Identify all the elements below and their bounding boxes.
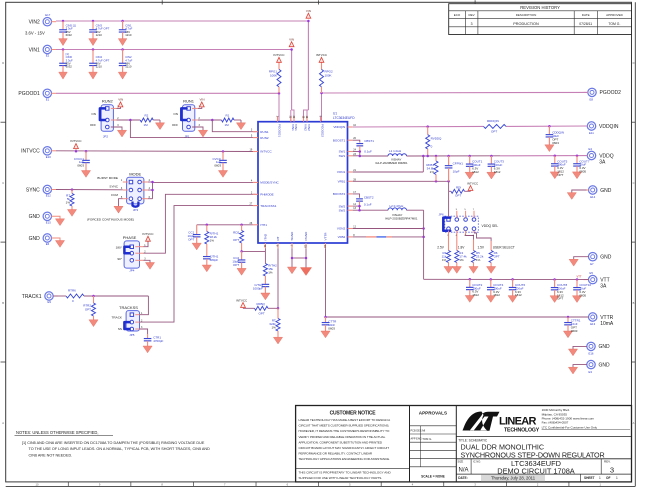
revision history table (449, 4, 632, 35)
svg-text:PGOOD1: PGOOD1 (278, 124, 282, 137)
resistor RVDDQ (426, 127, 442, 156)
svg-text:E12: E12 (46, 194, 51, 198)
capacitor CDDQIN (545, 126, 564, 151)
power arrow VIN at VIN1 rail corner (289, 37, 294, 46)
labels RUN2 ON OFF (90, 112, 96, 127)
capacitor COUT4 (486, 279, 503, 302)
svg-text:SYNCHRONOUS STEP-DOWN REGULATO: SYNCHRONOUS STEP-DOWN REGULATOR (461, 450, 605, 459)
resistor RFB1 (426, 156, 438, 181)
capacitor CIN3 (89, 21, 110, 46)
svg-text:PHMODE: PHMODE (260, 193, 273, 197)
svg-text:E2: E2 (46, 54, 50, 58)
svg-text:OF: OF (606, 476, 610, 480)
wire SYNC (56, 188, 123, 191)
svg-text:680pF: 680pF (210, 258, 219, 262)
terminal E12 SYNC (26, 185, 56, 197)
svg-text:10pF: 10pF (453, 169, 460, 173)
svg-text:MODE: MODE (129, 172, 141, 177)
svg-text:INTVCC: INTVCC (316, 53, 328, 57)
ground arrow at E6 (51, 238, 64, 247)
wire VIN1 rail (56, 50, 292, 111)
svg-text:E17: E17 (45, 13, 50, 17)
svg-text:VIN2: VIN2 (304, 124, 308, 131)
IC top pin stubs and numbers (275, 116, 324, 138)
stub pins JP6 top (456, 209, 475, 218)
svg-text:OFF: OFF (90, 123, 96, 127)
svg-text:1000pF: 1000pF (253, 287, 263, 291)
ground arrow after R1 (236, 120, 245, 130)
ground arrow after R2 (155, 120, 164, 130)
terminal E11 VDDQIN (583, 122, 619, 135)
svg-text:10mA: 10mA (600, 321, 614, 327)
resistor RFBQ (255, 302, 269, 316)
IC right pin stubs and numbers (333, 124, 357, 239)
notes text (15, 430, 211, 457)
svg-text:CIRCUIT THAT MEETS CUSTOMER-SU: CIRCUIT THAT MEETS CUSTOMER-SUPPLIED SPE… (299, 424, 390, 428)
power arrow VIN at VIN2 rail corner (306, 9, 311, 18)
svg-text:VIN2: VIN2 (29, 20, 40, 26)
svg-text:MODE/SYNC: MODE/SYNC (260, 181, 279, 185)
svg-text:OPT: OPT (491, 129, 497, 133)
svg-text:PGND: PGND (304, 231, 308, 241)
svg-text:3A: 3A (599, 160, 606, 166)
svg-text:OPT: OPT (455, 194, 461, 198)
svg-text:GND: GND (29, 214, 41, 220)
svg-text:INTVCC: INTVCC (467, 181, 479, 185)
capacitor CC1 (187, 225, 201, 250)
terminal E1 PGOOD1 (18, 89, 56, 101)
svg-text:1%: 1% (271, 326, 276, 330)
svg-text:180°: 180° (116, 245, 123, 249)
svg-text:E4: E4 (589, 147, 593, 151)
svg-text:E7: E7 (590, 262, 594, 266)
capacitor CTR1 (140, 329, 164, 353)
svg-text:SIZE: SIZE (458, 459, 464, 463)
svg-text:OPT: OPT (557, 173, 563, 177)
wire VDDQIN net (353, 125, 588, 128)
terminal E9 TRACK1 (22, 292, 58, 304)
terminal E16 GND (587, 342, 610, 355)
terminal E10 INTVCC (21, 147, 56, 159)
svg-text:1%: 1% (210, 239, 215, 243)
svg-text:SS: SS (118, 327, 122, 331)
IC bottom pin stubs and numbers (263, 231, 328, 248)
svg-text:E16: E16 (589, 352, 594, 356)
svg-text:6032: 6032 (66, 65, 73, 69)
resistor R4 (452, 251, 467, 274)
svg-text:VIN1: VIN1 (294, 124, 298, 131)
svg-text:0603: 0603 (328, 326, 335, 330)
svg-text:OPT: OPT (259, 312, 265, 316)
svg-text:E11: E11 (589, 131, 594, 135)
power arrow INTVCC above RPG1 (273, 53, 285, 62)
svg-text:REV.: REV. (604, 460, 611, 464)
svg-text:REVISION HISTORY: REVISION HISTORY (520, 5, 560, 10)
svg-text:OPT: OPT (233, 238, 239, 242)
svg-text:GND: GND (29, 236, 41, 242)
svg-text:0805: 0805 (579, 170, 586, 174)
svg-text:E5: E5 (590, 271, 594, 275)
wire VIN pin drops (291, 110, 309, 122)
jumper JP5 TRACKSS (119, 305, 143, 337)
capacitor CVCC (212, 152, 227, 178)
svg-text:A: A (633, 421, 635, 425)
svg-text:E3: E3 (589, 370, 593, 374)
svg-text:E1: E1 (46, 98, 50, 102)
svg-text:OPT: OPT (557, 297, 563, 301)
labels MODE options (87, 176, 134, 222)
ground arrow at E14 (567, 190, 588, 199)
wire VFB1 net (353, 180, 450, 183)
capacitor CTH1 (202, 254, 218, 271)
svg-text:L2 0.47uH: L2 0.47uH (390, 204, 404, 208)
svg-text:INTVCC: INTVCC (142, 232, 154, 236)
svg-text:L1 1.0uH: L1 1.0uH (389, 149, 401, 153)
svg-text:IHLP-2020BZERR47M01: IHLP-2020BZERR47M01 (385, 217, 418, 221)
ground arrow at E16 (568, 346, 587, 355)
svg-text:ITH1: ITH1 (260, 223, 267, 227)
wire VON1 to VDDQ rail (353, 156, 424, 172)
capacitor CIN2 (118, 50, 132, 80)
svg-text:VTT: VTT (577, 275, 582, 279)
capacitor CBST1 (353, 139, 375, 154)
svg-text:VTTR: VTTR (600, 315, 613, 321)
svg-text:1812: 1812 (515, 293, 522, 297)
ground arrow at E15 (51, 216, 64, 225)
svg-text:VDDQIN: VDDQIN (599, 124, 619, 130)
svg-text:APP ENG.: APP ENG. (411, 438, 423, 441)
resistor RTH2 (263, 264, 277, 285)
wire PHASE pin2 to IC PHMODE pin (144, 194, 259, 253)
svg-text:FCM: FCM (111, 193, 118, 197)
inductor L1 (388, 149, 407, 156)
svg-text:NOTES: UNLESS OTHERWISE SPECIF: NOTES: UNLESS OTHERWISE SPECIFIED, (16, 430, 99, 435)
svg-text:A: A (2, 421, 4, 425)
svg-text:TRACKSS1: TRACKSS1 (260, 204, 276, 208)
capacitor COUT7 (572, 156, 589, 179)
capacitor COUT1 (465, 156, 482, 179)
svg-text:CUSTOMER NOTICE: CUSTOMER NOTICE (330, 410, 377, 416)
svg-text:E6: E6 (46, 242, 50, 246)
svg-text:BOOST1: BOOST1 (333, 138, 346, 142)
svg-text:BURST MODE: BURST MODE (97, 176, 118, 180)
power arrow INTVCC at RFBQ (236, 298, 248, 308)
svg-text:JP3: JP3 (133, 208, 139, 212)
wire VIN2 rail (56, 21, 308, 110)
resistor RTR2 (83, 296, 98, 327)
svg-text:TOM G.: TOM G. (608, 22, 620, 26)
svg-text:MI: MI (422, 429, 425, 433)
svg-text:R1: R1 (226, 114, 230, 118)
svg-text:RFBQ: RFBQ (257, 302, 266, 306)
wire PGOOD2 (320, 92, 588, 122)
svg-text:SW1: SW1 (339, 154, 346, 158)
capacitor CBST2 (353, 194, 374, 207)
svg-text:RUN2: RUN2 (260, 136, 269, 140)
svg-text:U1: U1 (333, 112, 337, 116)
svg-text:VFB2: VFB2 (338, 235, 346, 239)
capacitor COUT2 (465, 279, 482, 302)
svg-text:0.1uF: 0.1uF (364, 203, 372, 207)
resistor RDDQIN (484, 119, 507, 133)
svg-text:JP1: JP1 (184, 134, 190, 138)
wire VON2 (353, 228, 424, 230)
svg-text:1812: 1812 (472, 170, 479, 174)
svg-text:(FORCED CONTINUOUS MODE): (FORCED CONTINUOUS MODE) (87, 217, 134, 221)
svg-text:C: C (633, 181, 635, 185)
resistor R5 (469, 251, 484, 274)
wire INTVCC (56, 150, 258, 153)
svg-text:VIN: VIN (289, 37, 294, 41)
wire VTTR net (324, 248, 588, 318)
svg-text:PGOOD1: PGOOD1 (18, 91, 40, 97)
terminal E2 VIN1 (29, 45, 56, 57)
svg-text:APPROVED: APPROVED (606, 13, 624, 17)
ground arrow at E3 (568, 365, 587, 374)
svg-text:RVDDQ: RVDDQ (431, 137, 442, 141)
svg-text:0603: 0603 (552, 141, 559, 145)
label input voltage range (25, 31, 45, 36)
wire TRACKSS pin2 to IC TRACKSS1 pin (140, 206, 259, 323)
svg-text:[1] CIN5 AND CIN6 ARE INSERT: [1] CIN5 AND CIN6 ARE INSERTED ON DC1708… (22, 441, 205, 445)
capacitor CIN6 (59, 50, 73, 80)
svg-text:B: B (633, 301, 635, 305)
svg-text:E9: E9 (48, 300, 52, 304)
svg-text:VIN: VIN (306, 9, 311, 13)
svg-text:E15: E15 (46, 221, 51, 225)
svg-text:VDDQ SEL: VDDQ SEL (482, 224, 499, 228)
svg-text:E8: E8 (590, 98, 594, 102)
svg-text:OPT: OPT (188, 238, 194, 242)
svg-text:RUN1: RUN1 (183, 99, 195, 104)
svg-text:INTVCC: INTVCC (236, 298, 248, 302)
svg-text:GND: GND (599, 344, 611, 350)
svg-text:JP5: JP5 (129, 333, 135, 337)
svg-text:1.8V: 1.8V (458, 245, 465, 249)
svg-text:REV: REV (469, 13, 475, 17)
wire RUN2 pin2 to R2 and IC RUN2 pin (117, 119, 259, 138)
terminal E14 GND (589, 186, 612, 199)
svg-text:SCALE = NONE: SCALE = NONE (421, 475, 445, 479)
terminal E7 GND (589, 253, 612, 266)
svg-text:3: 3 (471, 22, 473, 26)
svg-text:1M: 1M (144, 123, 149, 127)
svg-text:100K: 100K (270, 73, 277, 77)
svg-text:3: 3 (610, 466, 614, 475)
svg-text:RUN1: RUN1 (260, 130, 269, 134)
svg-text:LINEAR: LINEAR (499, 415, 537, 427)
IC left pin stubs and numbers (250, 129, 280, 227)
svg-text:PERFORMANCE OR RELIABILITY. C: PERFORMANCE OR RELIABILITY. CONTACT LINE… (299, 452, 373, 456)
svg-text:SHEET: SHEET (584, 476, 595, 480)
svg-text:IC NO.: IC NO. (473, 459, 481, 463)
svg-text:1.5V: 1.5V (478, 245, 485, 249)
terminal E5 VTT (584, 271, 610, 290)
svg-text:1%: 1% (430, 170, 435, 174)
resistor R7 (66, 190, 77, 217)
wire SW2 node (353, 205, 388, 212)
svg-text:VIN1: VIN1 (29, 47, 40, 53)
svg-text:INTVCC: INTVCC (21, 149, 40, 155)
svg-text:VFB1: VFB1 (338, 180, 346, 184)
svg-text:JP2: JP2 (103, 134, 109, 138)
power arrow VIN at RUN1 pin1 (198, 98, 205, 109)
svg-text:2: 2 (447, 235, 448, 237)
svg-text:ECO: ECO (454, 13, 461, 17)
ground arrow at RUN2 pin3 (111, 127, 127, 137)
terminal E6 GND (29, 234, 52, 246)
resistor R2 (140, 114, 153, 127)
svg-text:TRACKSS: TRACKSS (119, 305, 138, 310)
svg-text:LTC Confidential-For Customer: LTC Confidential-For Customer Use Only (542, 426, 598, 430)
svg-text:6: 6 (464, 235, 465, 237)
labels L1 VISHAY part (376, 158, 409, 166)
svg-text:N/A: N/A (459, 467, 469, 473)
svg-text:1210: 1210 (125, 65, 132, 69)
svg-text:ITH2: ITH2 (264, 234, 268, 241)
svg-text:VERIFY PROPER AND RELIABLE OPE: VERIFY PROPER AND RELIABLE OPERATION IN … (299, 435, 386, 439)
resistor R3 (442, 251, 453, 274)
wire TRACK1 (53, 295, 148, 315)
svg-text:2.5V: 2.5V (437, 245, 444, 249)
resistor R1 (222, 114, 235, 127)
ground arrow PGND (300, 268, 311, 276)
svg-text:E14: E14 (590, 195, 595, 199)
node junctions on VIN1 rail (62, 48, 293, 51)
power arrow INTVCC above RPG2 (316, 53, 328, 62)
svg-text:DESCRIPTION: DESCRIPTION (516, 13, 537, 17)
svg-text:OPT: OPT (85, 307, 91, 311)
svg-text:3A: 3A (600, 284, 607, 290)
svg-text:SW2: SW2 (339, 208, 346, 212)
ground arrow at MODE pin5 (114, 199, 123, 213)
labels TRACKSS options (112, 316, 123, 332)
wire VFB2 with net-tie (353, 236, 424, 238)
capacitor CFFW1 (445, 156, 463, 181)
svg-text:OFF: OFF (172, 123, 178, 127)
svg-text:6032: 6032 (66, 33, 73, 37)
svg-text:PCB DES.: PCB DES. (411, 429, 423, 432)
labels PHASE options (116, 245, 123, 261)
svg-text:CBST1: CBST1 (364, 139, 374, 143)
capacitor COUT5 (550, 156, 567, 179)
svg-text:07/28/11: 07/28/11 (579, 22, 592, 26)
wire SGND PGND (291, 248, 308, 267)
svg-text:DATE:: DATE: (458, 476, 468, 480)
svg-text:CIN6 ARE NOT NEEDED.: CIN6 ARE NOT NEEDED. (29, 453, 73, 457)
jumper JP6 VDDQ SEL (439, 212, 499, 232)
svg-text:SGND: SGND (290, 231, 294, 241)
svg-text:CBST2: CBST2 (364, 195, 374, 199)
svg-text:D: D (633, 61, 635, 65)
svg-text:VDDQIN: VDDQIN (333, 125, 345, 129)
resistor RTR6 (66, 288, 84, 302)
svg-text:ON: ON (91, 112, 96, 116)
svg-text:TRACK1: TRACK1 (22, 294, 42, 300)
resistor RPG2 (320, 62, 334, 93)
wire SW1 node (353, 150, 388, 157)
wire L2 output down to VTT rail (407, 210, 425, 279)
capacitor COUT6 (508, 279, 525, 302)
svg-text:INTVCC: INTVCC (70, 139, 82, 143)
resistor R6 (487, 251, 500, 274)
labels L2 VISHAY part (385, 213, 418, 221)
svg-text:VIN: VIN (199, 98, 204, 102)
svg-text:1812: 1812 (493, 293, 500, 297)
svg-text:RDI: RDI (456, 185, 461, 189)
svg-text:E10: E10 (46, 155, 51, 159)
node junctions on VIN2 rail (62, 20, 310, 23)
capacitor COUT8 (550, 280, 567, 303)
jumper JP3 MODE (121, 172, 151, 212)
svg-text:Fax: (408)434-0507: Fax: (408)434-0507 (542, 421, 569, 425)
svg-text:LINEAR TECHNOLOGY HAS MADE A B: LINEAR TECHNOLOGY HAS MADE A BEST EFFORT… (299, 418, 392, 422)
ground arrow SGND (287, 267, 296, 274)
svg-text:SYNC: SYNC (109, 184, 118, 188)
svg-text:DATE: DATE (582, 13, 590, 17)
svg-text:TOM G.: TOM G. (422, 437, 432, 441)
svg-text:LTC3634EUFD: LTC3634EUFD (333, 116, 355, 120)
svg-text:1210: 1210 (96, 65, 103, 69)
svg-text:INTVCC: INTVCC (260, 150, 272, 154)
svg-text:RTR6: RTR6 (68, 288, 76, 292)
svg-text:VTTR: VTTR (324, 232, 328, 241)
capacitor CTH2 (253, 283, 270, 300)
svg-text:C: C (2, 181, 4, 185)
capacitor CC2 (232, 251, 246, 275)
svg-text:8: 8 (473, 235, 474, 237)
title block (296, 406, 632, 482)
svg-text:OPT: OPT (494, 254, 500, 258)
wire VDDQ rail (407, 154, 588, 157)
svg-text:RDDQIN: RDDQIN (487, 119, 499, 123)
wire RUN1 pin2 to R1 and IC RUN1 pin (198, 119, 258, 132)
svg-text:APPROVALS: APPROVALS (419, 411, 447, 416)
svg-text:90°: 90° (117, 257, 122, 261)
wire ITH2 net (240, 248, 265, 263)
svg-text:1812: 1812 (472, 293, 479, 297)
svg-text:0.1uF: 0.1uF (364, 150, 372, 154)
svg-text:0603: 0603 (571, 329, 578, 333)
capacitor COUT10 (572, 280, 591, 303)
svg-text:VIN: VIN (118, 98, 123, 102)
svg-text:VIN2: VIN2 (307, 124, 311, 131)
svg-text:JP6: JP6 (439, 212, 445, 216)
svg-text:THIS CIRCUIT IS PROPRIETARY TO: THIS CIRCUIT IS PROPRIETARY TO LINEAR TE… (299, 471, 392, 475)
wire VFB1 node down to JP6 (448, 191, 450, 217)
svg-text:1: 1 (616, 476, 618, 480)
labels select voltages (437, 245, 515, 249)
svg-text:Thursday, July 28, 2011: Thursday, July 28, 2011 (491, 475, 536, 480)
terminal E3 GND (587, 360, 610, 373)
svg-text:IHLP-2020BZER R0MD1: IHLP-2020BZER R0MD1 (376, 161, 409, 165)
svg-text:VON2: VON2 (337, 227, 346, 231)
svg-text:1210: 1210 (96, 33, 103, 37)
svg-text:3.6V - 15V: 3.6V - 15V (25, 31, 45, 36)
svg-text:1%: 1% (66, 201, 71, 205)
svg-text:E13: E13 (590, 322, 595, 326)
capacitor CTTR1 (563, 317, 580, 338)
resistor RPG1 (269, 62, 281, 93)
capacitor CTTR (321, 317, 337, 338)
svg-text:PHASE: PHASE (123, 235, 137, 240)
svg-text:PGOOD2: PGOOD2 (321, 124, 325, 137)
net label VTT (577, 275, 582, 279)
capacitor CIN1 (118, 21, 132, 46)
jumper JP1 RUN1 (181, 99, 200, 139)
svg-text:0603: 0603 (214, 164, 221, 168)
svg-text:RUN2: RUN2 (102, 99, 114, 104)
